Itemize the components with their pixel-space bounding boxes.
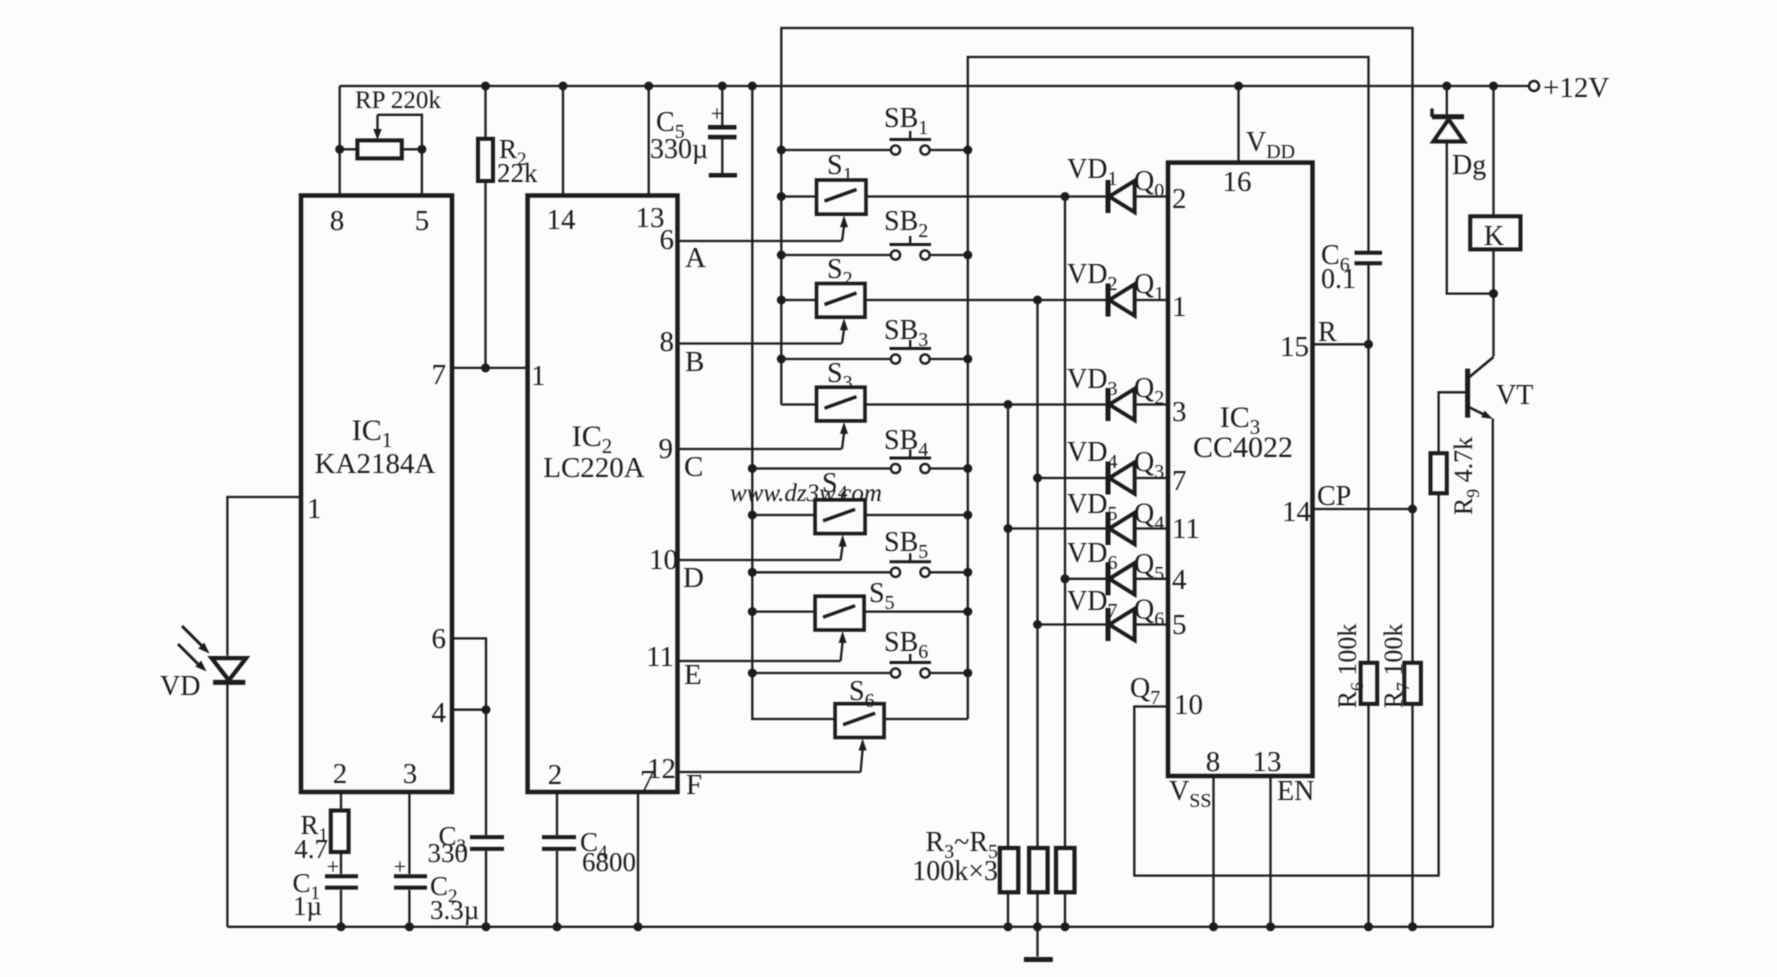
node rail-Dg bbox=[1442, 82, 1451, 91]
svg-text:C: C bbox=[684, 451, 703, 483]
svg-text:RP 220k: RP 220k bbox=[355, 87, 441, 114]
wire IC1 pin 6 bbox=[452, 638, 486, 835]
diode Dg bbox=[1432, 114, 1464, 119]
wire SB6 right bbox=[930, 672, 968, 674]
wire ground stem bbox=[1036, 927, 1038, 957]
wire bus to S4 bbox=[752, 514, 816, 516]
capacitor C2 bbox=[394, 874, 427, 878]
svg-text:+12V: +12V bbox=[1543, 72, 1609, 104]
node SB2 right bbox=[963, 251, 972, 260]
wire S6 right bbox=[884, 718, 968, 720]
wire IC1 pin 3 to C2 bbox=[408, 792, 410, 874]
wire RP right lead bbox=[402, 148, 422, 150]
wire K to VT collector bbox=[1492, 249, 1494, 356]
wire rail to IC2 pin 14 bbox=[562, 86, 564, 196]
wire bus to SB6 bbox=[752, 672, 891, 674]
svg-text:3: 3 bbox=[1172, 396, 1187, 428]
node rail-left bus bbox=[748, 82, 757, 91]
wire VSS pin 8 to ground bbox=[1212, 776, 1214, 927]
node R-C6 bbox=[1364, 340, 1373, 349]
svg-text:330: 330 bbox=[428, 838, 469, 868]
diode VD3 bbox=[1106, 388, 1111, 421]
wire rail to VDD pin 16 bbox=[1237, 86, 1239, 163]
diode VD6 bbox=[1106, 562, 1111, 595]
svg-text:7: 7 bbox=[640, 765, 655, 797]
capacitor C3 bbox=[470, 835, 504, 839]
svg-text:14: 14 bbox=[1282, 496, 1312, 528]
wire VD3 to pin 3 bbox=[1135, 403, 1169, 405]
diode VD7 bbox=[1106, 608, 1111, 641]
node S2 left bbox=[777, 296, 786, 305]
capacitor C1 bbox=[325, 874, 358, 878]
svg-text:CP: CP bbox=[1317, 481, 1351, 512]
wire C2 to ground rail bbox=[408, 890, 410, 927]
wire S2 right to VD2 bbox=[865, 299, 1106, 301]
wire rail to IC1 pin 8 bbox=[339, 86, 341, 196]
svg-text:+: + bbox=[711, 101, 723, 126]
wire vertical node B bbox=[1036, 300, 1038, 848]
relay K bbox=[1470, 216, 1520, 249]
node S5 right bbox=[963, 607, 972, 616]
node gnd-R7 bbox=[1408, 922, 1417, 931]
wire top loop CP line bbox=[781, 28, 1412, 663]
photodiode VD bbox=[212, 658, 247, 680]
wire S3 right to VD3 bbox=[865, 403, 1106, 405]
diode VD1 bbox=[1106, 180, 1111, 213]
node Dg-K bbox=[1489, 289, 1498, 298]
wire C3 to ground rail bbox=[485, 851, 487, 927]
svg-text:E: E bbox=[684, 659, 702, 691]
svg-text:14: 14 bbox=[547, 204, 577, 236]
svg-text:16: 16 bbox=[1223, 166, 1252, 198]
wire SB4 right bbox=[930, 467, 968, 469]
wire R3 to ground rail bbox=[1007, 892, 1009, 927]
wire node B to VD4 bbox=[1038, 477, 1106, 479]
wire rail to IC2 pin 13 bbox=[648, 86, 650, 196]
wire node A to VD5 bbox=[1008, 527, 1106, 529]
wire RP left lead bbox=[340, 148, 358, 150]
wire IC1 pin7 to IC2 pin1 bbox=[452, 367, 528, 369]
svg-text:11: 11 bbox=[646, 641, 674, 673]
wire +12V rail bbox=[340, 85, 1529, 87]
wire R1 to C1 bbox=[340, 852, 342, 874]
node CP-R7 bbox=[1408, 505, 1417, 514]
svg-text:5: 5 bbox=[1172, 609, 1187, 641]
svg-text:8: 8 bbox=[1206, 746, 1221, 778]
node IC1p7 bbox=[481, 363, 490, 372]
wire C4 to ground rail bbox=[556, 851, 558, 927]
resistor R7 bbox=[1404, 663, 1421, 704]
node SB3 right bbox=[963, 355, 972, 364]
svg-text:R6 100k: R6 100k bbox=[1333, 624, 1367, 709]
IC IC3 CC4022 bbox=[1168, 163, 1313, 776]
diode VD2 bbox=[1106, 284, 1111, 317]
node gnd-EN bbox=[1266, 922, 1275, 931]
wire bus to S5 bbox=[752, 610, 816, 612]
terminal +12V bbox=[1529, 81, 1539, 91]
svg-text:8: 8 bbox=[330, 205, 345, 237]
IC IC1 KA2184A bbox=[301, 196, 452, 793]
svg-text:+: + bbox=[327, 854, 339, 879]
wire VD to ground rail bbox=[226, 682, 228, 926]
wire node B to VD7 bbox=[1038, 623, 1106, 625]
wire VD2 to pin 1 bbox=[1135, 299, 1169, 301]
wire rail to R2 bbox=[484, 86, 486, 139]
svg-text:R: R bbox=[1318, 317, 1337, 348]
wire Dg to K bottom bbox=[1447, 141, 1494, 293]
svg-text:6800: 6800 bbox=[582, 847, 636, 877]
svg-text:6: 6 bbox=[660, 224, 675, 256]
wire pin 15 R line bbox=[1313, 343, 1369, 345]
svg-text:3: 3 bbox=[403, 758, 418, 790]
node A-VD5 bbox=[1004, 524, 1013, 533]
node rail-VDD bbox=[1234, 82, 1243, 91]
svg-text:LC220A: LC220A bbox=[543, 452, 645, 484]
push button SB2 bbox=[891, 250, 900, 259]
svg-text:R7 100k: R7 100k bbox=[1379, 624, 1413, 709]
node RP right bbox=[417, 145, 426, 154]
svg-text:4: 4 bbox=[1172, 564, 1187, 596]
wire S1 control arrow bbox=[842, 226, 844, 241]
wire RP wiper loop / pin 5 drop bbox=[378, 115, 422, 196]
node S1 left bbox=[777, 192, 786, 201]
resistor R3 bbox=[1000, 848, 1019, 892]
wire rail to relay K bbox=[1492, 86, 1494, 216]
wire VD6 to pin 4 bbox=[1135, 578, 1169, 580]
wire SB2 left bbox=[781, 254, 891, 256]
svg-text:100k×3: 100k×3 bbox=[912, 856, 998, 887]
wire RP wiper arrow bbox=[376, 115, 378, 131]
wire R9 to VT base bbox=[1439, 392, 1466, 453]
wire S5 control arrow bbox=[841, 642, 843, 661]
svg-text:2: 2 bbox=[1172, 183, 1187, 215]
svg-text:7: 7 bbox=[432, 359, 447, 391]
wire node C to VD6 bbox=[1065, 578, 1106, 580]
svg-text:KA2184A: KA2184A bbox=[315, 448, 436, 480]
wire C5 lower stem bbox=[721, 137, 723, 173]
push button SB5 bbox=[891, 568, 900, 577]
wire SB3 right bbox=[930, 358, 968, 360]
svg-text:15: 15 bbox=[1280, 331, 1309, 363]
wire bus to SB5 bbox=[752, 571, 891, 573]
svg-text:1: 1 bbox=[531, 360, 546, 392]
svg-text:1: 1 bbox=[1172, 291, 1187, 323]
node S5 left bbox=[748, 607, 757, 616]
svg-text:2: 2 bbox=[548, 759, 563, 791]
svg-text:EN: EN bbox=[1277, 776, 1314, 807]
wire S2 control arrow bbox=[842, 329, 844, 343]
node gnd-R5 bbox=[1061, 922, 1070, 931]
node gnd-R6 bbox=[1364, 922, 1373, 931]
wire IC2 output C bbox=[678, 448, 842, 450]
wire R2 to node 7-1 bbox=[484, 181, 486, 368]
wire IC2 output F bbox=[678, 771, 861, 773]
wire EN pin 13 to ground bbox=[1269, 776, 1271, 927]
wire ground rail bbox=[227, 926, 1493, 928]
svg-text:K: K bbox=[1484, 221, 1504, 252]
wire SB5 right bbox=[930, 571, 968, 573]
wire IC2 output B bbox=[678, 342, 842, 344]
potentiometer RP bbox=[357, 140, 401, 158]
wire VD4 to pin 7 bbox=[1135, 477, 1169, 479]
wire vertical node C bbox=[1064, 197, 1066, 849]
svg-text:2: 2 bbox=[333, 758, 348, 790]
resistor R1 bbox=[331, 811, 349, 853]
wire rail to C5 bbox=[721, 86, 723, 127]
push button SB6 bbox=[891, 668, 900, 677]
node RP left bbox=[335, 145, 344, 154]
resistor R2 bbox=[478, 139, 493, 181]
wire Q7 pin 10 to R9 bbox=[1134, 493, 1438, 875]
diode VD4 bbox=[1106, 462, 1111, 495]
wire second loop reset line bbox=[968, 57, 1369, 719]
wire SB3 left bbox=[781, 358, 891, 360]
node gnd-C2 bbox=[405, 922, 414, 931]
svg-text:R9 4.7k: R9 4.7k bbox=[1449, 437, 1483, 515]
wire IC2 output D bbox=[678, 559, 841, 561]
node rail-IC2p14 bbox=[559, 82, 568, 91]
node SB4 right bbox=[963, 464, 972, 473]
wire VT emitter to ground rail bbox=[1492, 419, 1494, 927]
IC IC2 LC220A bbox=[528, 196, 678, 793]
svg-text:22k: 22k bbox=[497, 158, 538, 188]
wire S3 left bbox=[781, 403, 816, 405]
transistor VT bbox=[1465, 369, 1470, 418]
node gnd-C4 bbox=[553, 922, 562, 931]
resistor R5 bbox=[1056, 848, 1075, 892]
wire VD1 to pin 2 bbox=[1135, 195, 1169, 197]
wire S1 right to VD1 bbox=[866, 195, 1106, 197]
resistor R4 bbox=[1029, 848, 1048, 892]
node C top bbox=[1061, 192, 1070, 201]
wire rail to Dg bbox=[1446, 86, 1448, 115]
wire IC1 pin 1 to VD bbox=[227, 497, 301, 656]
svg-text:D: D bbox=[683, 562, 704, 594]
svg-text:0.1: 0.1 bbox=[1321, 264, 1356, 295]
svg-text:330µ: 330µ bbox=[650, 134, 708, 165]
node rail-K bbox=[1489, 82, 1498, 91]
wire R6 to ground rail bbox=[1367, 704, 1369, 927]
wire IC2 pin 7 to ground rail bbox=[637, 792, 639, 927]
node gnd-VSS bbox=[1209, 922, 1218, 931]
svg-text:11: 11 bbox=[1172, 513, 1200, 545]
node S4 right bbox=[963, 511, 972, 520]
node A top bbox=[1004, 400, 1013, 409]
node B top bbox=[1033, 296, 1042, 305]
svg-text:A: A bbox=[685, 242, 706, 274]
resistor R9 bbox=[1431, 453, 1447, 493]
node gnd-R3 bbox=[1004, 922, 1013, 931]
node SB6 right bbox=[963, 669, 972, 678]
node SB1 right bbox=[963, 146, 972, 155]
svg-text:www.dz3w.com: www.dz3w.com bbox=[730, 480, 882, 507]
wire bus to SB4 bbox=[752, 467, 891, 469]
wire SB1 right bbox=[930, 149, 968, 151]
wire S1 left bbox=[781, 195, 816, 197]
wire IC1 pin 2 to R1 bbox=[340, 792, 342, 811]
svg-text:10: 10 bbox=[649, 544, 678, 576]
push button SB3 bbox=[891, 354, 900, 363]
wire SB1 left bbox=[781, 149, 891, 151]
node S4 left bbox=[748, 511, 757, 520]
svg-text:4.7: 4.7 bbox=[294, 834, 328, 864]
node rail-R2 bbox=[481, 82, 490, 91]
svg-text:13: 13 bbox=[1253, 746, 1282, 778]
wire S2 left bbox=[781, 299, 816, 301]
svg-text:5: 5 bbox=[415, 205, 430, 237]
switch S4 bbox=[815, 500, 865, 534]
node SB4 left bbox=[748, 464, 757, 473]
node IC1p4 bbox=[482, 705, 491, 714]
switch S2 bbox=[817, 284, 866, 318]
diode VD5 bbox=[1106, 512, 1111, 545]
wire R5 to ground rail bbox=[1064, 892, 1066, 927]
node B-VD7 bbox=[1033, 620, 1042, 629]
wire C6 to R6 bbox=[1367, 263, 1369, 663]
wire vertical node A bbox=[1007, 405, 1009, 849]
svg-text:7: 7 bbox=[1172, 465, 1187, 497]
switch S3 bbox=[817, 387, 866, 421]
wire S5 right bbox=[864, 610, 968, 612]
svg-text:6: 6 bbox=[432, 623, 447, 655]
svg-text:VD: VD bbox=[160, 671, 200, 702]
svg-text:B: B bbox=[685, 346, 704, 378]
node gnd-IC2p7 bbox=[634, 922, 643, 931]
switch S1 bbox=[817, 180, 867, 214]
node SB5 right bbox=[963, 568, 972, 577]
svg-text:10: 10 bbox=[1174, 689, 1203, 721]
wire VD5 to pin 11 bbox=[1135, 527, 1169, 529]
node SB1 left bbox=[777, 146, 786, 155]
node gnd-C3 bbox=[482, 922, 491, 931]
node gnd-R4 bbox=[1033, 922, 1042, 931]
node rail-IC2p13 bbox=[644, 82, 653, 91]
node C-VD6 bbox=[1061, 574, 1070, 583]
wire S4 right bbox=[865, 514, 968, 516]
svg-text:Dg: Dg bbox=[1452, 150, 1486, 181]
node gnd-C1 bbox=[337, 922, 346, 931]
wire S3 control arrow bbox=[842, 433, 844, 449]
wire VD7 to pin 5 bbox=[1135, 623, 1169, 625]
wire C1 to ground rail bbox=[340, 890, 342, 927]
svg-text:4: 4 bbox=[432, 697, 447, 729]
wire SB2 right bbox=[930, 254, 968, 256]
wire R7 to ground rail bbox=[1411, 704, 1413, 927]
svg-text:1: 1 bbox=[307, 493, 322, 525]
node rail-C5 bbox=[718, 82, 727, 91]
wire pin 14 CP line bbox=[1313, 508, 1413, 510]
node B-VD4 bbox=[1033, 474, 1042, 483]
svg-text:F: F bbox=[686, 769, 702, 801]
capacitor C5 bbox=[708, 125, 737, 130]
switch S5 bbox=[815, 596, 864, 630]
node SB5 left bbox=[748, 568, 757, 577]
wire IC1 pin 4 bbox=[452, 709, 486, 711]
wire R4 to ground rail bbox=[1036, 892, 1038, 927]
push button SB1 bbox=[891, 145, 900, 154]
wire left bus from rail bbox=[752, 86, 835, 719]
wire IC2 output E bbox=[678, 660, 841, 662]
wire S6 control arrow bbox=[861, 750, 863, 773]
capacitor C6 bbox=[1355, 251, 1383, 255]
node SB3 left bbox=[777, 355, 786, 364]
ground bbox=[1024, 957, 1053, 962]
node SB6 left bbox=[748, 669, 757, 678]
svg-text:9: 9 bbox=[659, 433, 674, 465]
wire S4 control arrow bbox=[841, 546, 843, 560]
switch S6 bbox=[835, 704, 884, 738]
wire IC2 pin 2 to C4 bbox=[556, 792, 558, 835]
svg-text:+: + bbox=[394, 854, 406, 879]
svg-text:1µ: 1µ bbox=[293, 891, 322, 921]
svg-text:CC4022: CC4022 bbox=[1193, 431, 1293, 464]
capacitor C4 bbox=[542, 835, 576, 839]
svg-text:3.3µ: 3.3µ bbox=[430, 895, 479, 925]
svg-text:8: 8 bbox=[660, 326, 675, 358]
resistor R6 bbox=[1361, 663, 1378, 704]
svg-text:VT: VT bbox=[1496, 380, 1533, 411]
push button SB4 bbox=[891, 464, 900, 473]
wire IC2 output A bbox=[678, 240, 842, 242]
node SB2 left bbox=[777, 251, 786, 260]
